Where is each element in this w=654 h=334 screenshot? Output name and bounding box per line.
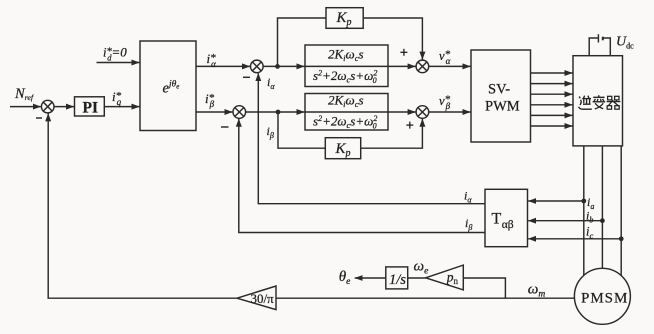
wire PI to e-jtheta block	[104, 106, 139, 108]
wire gate signal 6	[531, 125, 573, 127]
wire phase b vertical	[601, 146, 603, 268]
wire S2 to PR block 1	[263, 65, 304, 67]
label inverter CJK ni	[579, 96, 592, 110]
node dot alpha feedforward tap	[275, 64, 280, 69]
wire S4 to SV-PWM (v*_alpha)	[429, 65, 471, 67]
wire DC source left	[589, 38, 598, 56]
wire pn to 1/s	[408, 277, 426, 279]
wire S5 to SV-PWM (v*_beta)	[429, 111, 471, 113]
summing junction S2	[250, 60, 263, 73]
wire gate signal 1	[531, 72, 573, 74]
svg-text:PWM: PWM	[485, 99, 520, 115]
wire e-jtheta to S2 (i*_alpha)	[196, 65, 250, 67]
battery plate long	[597, 34, 599, 42]
minus sign at S1	[36, 117, 42, 119]
battery plate short	[602, 37, 604, 41]
label inverter CJK bian	[593, 95, 606, 109]
wire 1/s to theta_e output	[355, 277, 386, 279]
summing junction S4	[416, 60, 429, 73]
wire gate signal 4	[531, 104, 573, 106]
node dot i_c tap	[619, 236, 624, 241]
gain triangle 30/pi	[237, 286, 276, 310]
wire e-jtheta to S3 (i*_beta)	[196, 111, 232, 113]
block PR controller 2	[305, 94, 388, 131]
wire DC source right	[603, 38, 611, 56]
wire omega_m from PMSM	[276, 297, 574, 299]
wire branch omega_m to pn	[463, 278, 505, 298]
minus sign at S3	[221, 126, 229, 128]
block e-jtheta	[140, 41, 196, 131]
wire i_beta feedback	[239, 119, 485, 233]
svg-text:2Kiωcs: 2Kiωcs	[328, 47, 364, 64]
wire speed feedback to S1	[48, 113, 237, 298]
minus sign at S2	[243, 76, 250, 78]
label plus at S5	[406, 122, 413, 129]
wire Kp1 feedforward left	[278, 18, 327, 66]
wire block1 to S4	[388, 65, 416, 67]
wire Kp2 feedforward right into S5	[361, 119, 423, 148]
label plus at S4	[400, 49, 407, 56]
svg-text:PMSM: PMSM	[581, 291, 628, 307]
fraction bar wire through block 1	[305, 65, 388, 67]
wire block2 to S5	[388, 111, 416, 113]
wire i_c to T_ab	[528, 238, 621, 240]
gain triangle pn	[426, 265, 464, 290]
wire S3 to PR block 2	[246, 111, 305, 113]
block inverter	[573, 56, 623, 146]
svg-text:s2+2ωcs+ω20: s2+2ωcs+ω20	[313, 68, 377, 85]
wire N_ref input arrow	[10, 106, 41, 108]
svg-text:s2+2ωcs+ω20: s2+2ωcs+ω20	[313, 114, 377, 131]
block PR controller 1	[305, 45, 388, 87]
svg-text:PI: PI	[83, 100, 99, 117]
wire i_a to T_ab	[528, 200, 584, 202]
block PI	[75, 97, 105, 116]
node dot i_a tap	[581, 199, 586, 204]
svg-text:1/s: 1/s	[389, 272, 406, 288]
block 1/s	[386, 267, 408, 289]
svg-text:SV-: SV-	[488, 82, 510, 98]
motor PMSM circle	[574, 268, 630, 324]
wire gate signal 2	[531, 83, 573, 85]
wire S1 to PI	[54, 106, 74, 108]
block T_alphabeta	[485, 189, 528, 246]
wire phase a vertical	[583, 146, 585, 275]
wire gate signal 3	[531, 93, 573, 95]
label inverter CJK qi	[607, 96, 621, 109]
wire i*d=0 input	[97, 62, 140, 64]
svg-text:30/π: 30/π	[251, 291, 275, 306]
summing junction S1	[41, 100, 54, 113]
summing junction S5	[416, 106, 429, 119]
wire phase c vertical	[620, 146, 622, 276]
svg-text:2Kiωcs: 2Kiωcs	[328, 93, 364, 110]
wire Kp1 feedforward right into S4	[363, 18, 422, 60]
wire i_alpha feedback	[258, 73, 485, 204]
wire Kp2 feedforward left	[278, 112, 325, 148]
wire i_b to T_ab	[528, 220, 602, 222]
block Kp2	[325, 138, 360, 159]
node dot beta feedforward tap	[276, 110, 281, 115]
wire gate signal 5	[531, 114, 573, 116]
block SV-PWM	[471, 50, 531, 142]
node dot i_b tap	[600, 218, 605, 223]
fraction bar wire through block 2	[305, 111, 388, 113]
block Kp1	[326, 8, 363, 29]
summing junction S3	[233, 106, 246, 119]
